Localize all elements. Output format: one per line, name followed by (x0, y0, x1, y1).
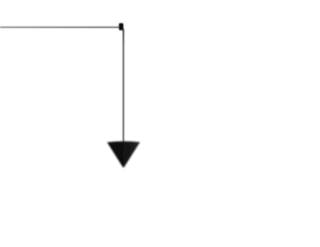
lamp shade cone (107, 141, 140, 167)
wire horizontal suspension cable (0, 26, 120, 28)
wire vertical drop cable (122, 29, 124, 142)
junction box ceiling connector (119, 23, 124, 30)
